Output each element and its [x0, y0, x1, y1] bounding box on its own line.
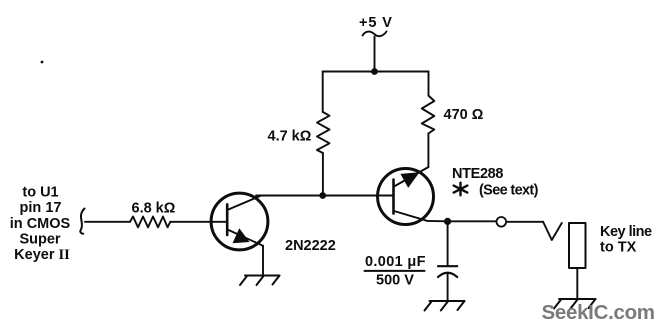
svg-text:470 Ω: 470 Ω [444, 107, 484, 123]
svg-text:Key line: Key line [600, 224, 652, 240]
svg-text:6.8 kΩ: 6.8 kΩ [132, 201, 176, 217]
svg-text:+5 V: +5 V [359, 15, 393, 31]
svg-text:to U1: to U1 [22, 185, 58, 201]
svg-text:Super: Super [19, 232, 60, 248]
svg-text:0.001 μF: 0.001 μF [365, 254, 426, 270]
svg-text:Keyer II: Keyer II [14, 247, 70, 263]
svg-text:NTE288: NTE288 [452, 166, 503, 182]
svg-text:500 V: 500 V [376, 273, 414, 289]
svg-text:in CMOS: in CMOS [10, 216, 71, 232]
svg-text:SeekIC.com: SeekIC.com [542, 301, 655, 324]
svg-text:2N2222: 2N2222 [285, 238, 336, 254]
svg-text:to TX: to TX [600, 240, 637, 256]
svg-text:4.7 kΩ: 4.7 kΩ [268, 129, 312, 145]
svg-text:(See text): (See text) [479, 183, 539, 199]
svg-text:pin 17: pin 17 [20, 200, 62, 216]
